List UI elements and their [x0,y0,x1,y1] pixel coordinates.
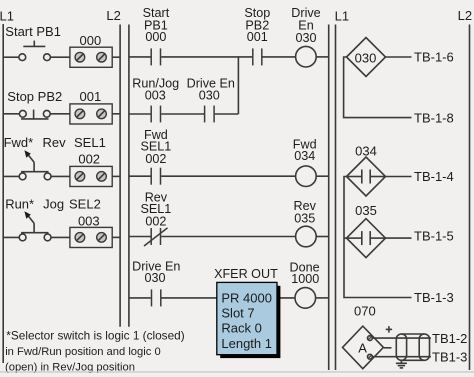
wire rung2 rail to contact 002 [129,175,151,177]
wire module 003 to L2 [112,236,120,238]
branch junction vertical [237,57,239,114]
svg-text:002: 002 [145,152,166,166]
wire PB2 to module 001 [50,113,70,115]
contact 002 Rev SEL1 (NC) [144,228,168,246]
wire terminal 034 to TB-1-4 [386,176,412,178]
wire module 001 to L2 [112,113,120,115]
contact 001 Stop PB2 (NO) [253,48,262,65]
svg-text:035: 035 [355,203,377,218]
label Run/Jog contact [132,76,179,102]
wire contact 002 to coil 034 [161,175,295,177]
svg-text:034: 034 [294,149,315,163]
bus stub to 035 [344,237,347,239]
svg-text:SEL2: SEL2 [69,197,101,212]
svg-text:Start PB1: Start PB1 [5,24,61,39]
svg-text:Rack 0: Rack 0 [221,321,261,336]
wire coil 1000 to right rail [316,297,329,299]
input module terminal 003 [70,227,112,247]
ladder right rail [328,25,330,371]
wire contact 030 to XFER block [162,297,217,299]
label Drive En contact branch [187,76,235,102]
shield ground [396,360,407,368]
minus polarity mark [384,347,392,349]
contact 003 Run/Jog (NO) [151,106,160,123]
wire contact 001 to coil 030 [263,56,296,58]
svg-text:035: 035 [294,211,315,225]
svg-text:L1: L1 [0,9,14,24]
output module terminal 030 diamond [347,38,386,77]
label Drive En rung4 contact [132,260,180,285]
coil 1000 Done [295,288,316,309]
note selector switch [5,329,185,374]
wire ammeter minus to TB1-3 [372,356,431,358]
svg-text:000: 000 [145,30,166,44]
wire terminal 035 to TB-1-5 [386,237,412,239]
svg-text:Fwd*: Fwd* [4,135,34,150]
wire coil 034 to right rail [316,175,329,177]
XFER OUT function block [217,282,277,354]
wire rung3 rail to contact 002b [129,236,151,238]
svg-text:L2: L2 [458,8,472,23]
svg-text:070: 070 [354,304,376,319]
svg-text:Slot 7: Slot 7 [221,305,254,320]
label Rev SEL1 contact [140,191,171,229]
contact 002 Fwd SEL1 (NO) [151,168,160,185]
wire SEL1 to module 002 [51,175,70,177]
svg-text:L1: L1 [335,9,349,24]
label Rev coil [293,199,316,225]
svg-text:1000: 1000 [291,272,319,286]
svg-text:030: 030 [144,271,165,285]
svg-text:Stop PB2: Stop PB2 [7,89,62,104]
wire contact 003 to contact 030 branch [161,113,204,115]
pushbutton PB2 (NC) [19,110,50,119]
svg-text:TB-1-3: TB-1-3 [414,290,454,305]
svg-text:030: 030 [295,31,316,45]
svg-text:A: A [358,341,367,356]
svg-text:030: 030 [199,89,220,103]
svg-text:L2: L2 [106,8,120,23]
svg-text:003: 003 [145,89,166,103]
wire module 002 to L2 [112,175,120,177]
input module terminal 000 [70,47,112,67]
svg-text:SEL1: SEL1 [74,135,106,150]
svg-text:000: 000 [80,33,102,48]
wire rung1 rail to contact 000 [129,56,151,58]
input module terminal 002 [70,166,112,186]
contact 000 Start PB1 (NO) [151,48,160,65]
svg-text:001: 001 [247,30,268,44]
XFER block parameters text [221,290,272,350]
label Stop contact [244,6,270,44]
label Done coil [290,260,320,285]
svg-text:PR 4000: PR 4000 [221,290,272,305]
contact 030 Drive En branch (NO) [205,106,215,123]
wire row1 L1 to PB1 [3,56,19,58]
wire contact 002b to coil 035 [161,236,295,238]
wire rung4 rail to contact 030 [129,297,151,299]
svg-text:Rev: Rev [43,135,67,150]
input power rail L2 [119,25,121,327]
output power rail L1 [335,25,337,371]
wire contact 030 branch to junction [215,113,239,115]
pushbutton PB1 (NO) [19,41,50,61]
svg-text:in Fwd/Run position and logic: in Fwd/Run position and logic 0 [5,346,160,358]
output power rail L2 [469,25,471,371]
label Start contact [143,6,170,44]
analog output terminal 070 ammeter diamond [343,326,384,369]
svg-text:TB1-2: TB1-2 [432,331,467,346]
output common bus 034-035 to TB-1-3 [344,177,412,298]
label Fwd coil [293,138,317,164]
svg-text:TB-1-4: TB-1-4 [414,169,454,184]
selector switch SEL1 [19,150,51,180]
wire row2 L1 to PB2 [3,113,19,115]
wire XFER block to coil 1000 [277,297,295,299]
label Drive En coil [291,6,320,45]
svg-text:002: 002 [78,151,100,166]
svg-text:030: 030 [355,51,377,66]
coil 034 Fwd [296,166,317,187]
wire ammeter plus to TB1-2 [372,337,431,339]
wire row4 L1 to SEL2 [3,236,19,238]
coil 030 Drive En [296,46,317,67]
input module terminal 001 [70,104,112,124]
svg-text:TB-1-8: TB-1-8 [414,110,454,125]
wire branch rail to contact 003 [129,113,151,115]
ladder left rail [128,25,130,327]
wire module 000 to L2 [112,56,120,58]
wire coil 030 to right rail [316,56,329,58]
selector switch SEL2 [19,211,51,241]
output module terminal 035 diamond [347,219,386,258]
shielded cable symbol [396,334,429,360]
svg-text:TB1-3: TB1-3 [432,349,467,364]
wire PB1 to module 000 [50,56,70,58]
wire terminal 030 down to TB-1-8 [344,57,412,118]
svg-text:034: 034 [355,144,377,159]
svg-text:Length 1: Length 1 [221,336,272,351]
output module terminal 034 diamond [347,157,386,196]
svg-text:002: 002 [145,215,166,229]
XFER OUT block shadow [220,286,280,358]
label Fwd SEL1 contact [140,128,171,166]
svg-text:Run*: Run* [5,197,34,212]
wire terminal 030 to TB-1-6 [386,56,412,58]
svg-text:003: 003 [78,213,100,228]
svg-text:*Selector switch is logic 1 (c: *Selector switch is logic 1 (closed) [6,329,184,343]
bottom separator line [0,371,474,372]
svg-text:001: 001 [80,89,102,104]
input power rail L1 [2,24,4,363]
wire contact 000 to contact 001 [161,56,252,58]
coil 035 Rev [296,226,317,247]
wire SEL2 to module 003 [51,236,70,238]
svg-text:TB-1-6: TB-1-6 [414,50,454,65]
contact 030 Drive En (NO) [152,289,161,306]
wire coil 035 to right rail [316,236,329,238]
svg-text:XFER OUT: XFER OUT [214,267,278,281]
svg-text:Jog: Jog [43,197,64,212]
svg-text:TB-1-5: TB-1-5 [414,228,454,243]
plus polarity mark [386,326,392,332]
wire row3 L1 to SEL1 [3,175,19,177]
